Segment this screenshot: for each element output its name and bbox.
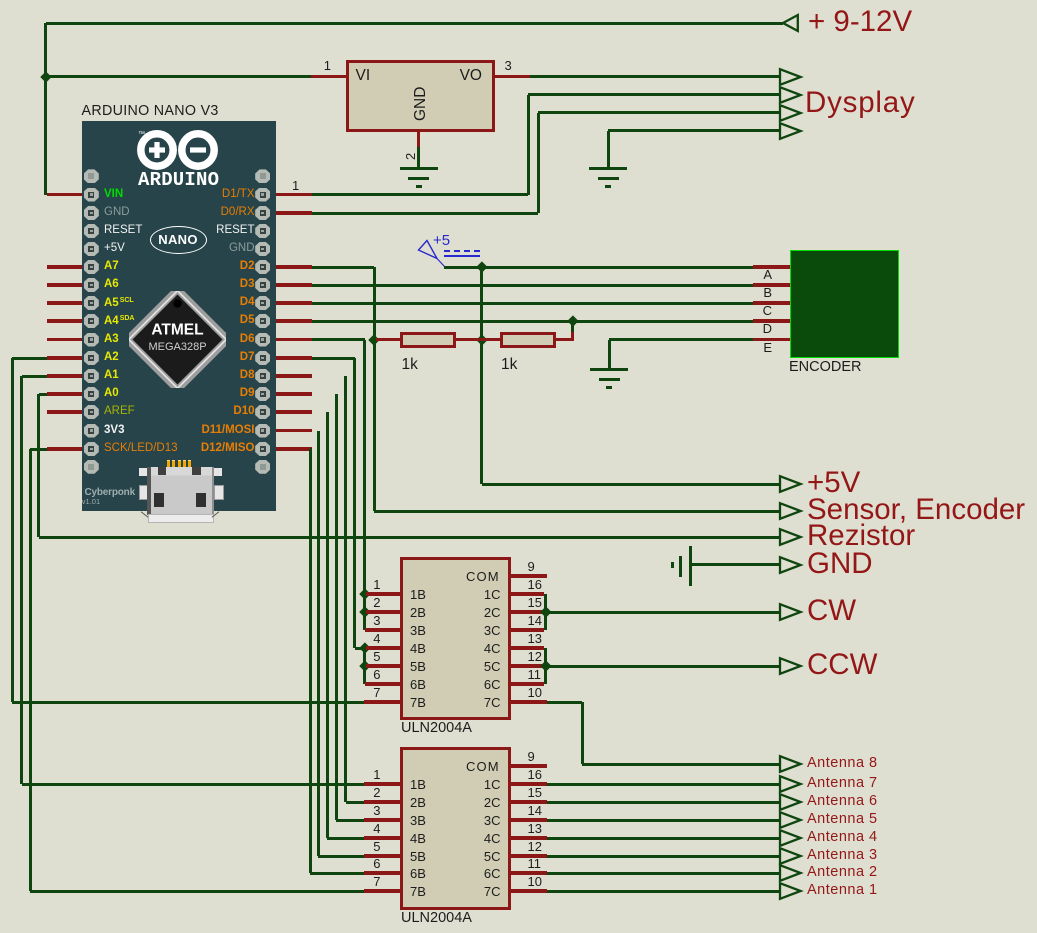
op-amp array U2 pin name 5B	[410, 850, 426, 863]
op-amp array U2 pin number 4	[365, 822, 381, 835]
pin stub A6	[47, 283, 85, 286]
pin stub encoder D	[753, 319, 791, 322]
pin stub ULN1 6B	[365, 682, 402, 685]
svg-text:™: ™	[138, 131, 145, 138]
wire A2 horizontal	[12, 357, 47, 360]
wire R2 right vertical red	[571, 332, 574, 341]
wire D10 horizontal	[326, 411, 328, 414]
wire D12/MISO vertical	[309, 449, 312, 873]
wire D11/MOSI stub	[271, 429, 312, 432]
wire D7 vertical lower	[363, 648, 366, 684]
pin stub ULN1 4B	[366, 646, 401, 649]
wire Dysplay 4 to ground	[607, 131, 610, 168]
label Antenna 4	[807, 830, 878, 845]
pin letter encoder B	[761, 286, 772, 299]
pin stub A0	[47, 392, 85, 395]
op-amp array U1 pin number 14	[528, 614, 542, 627]
op-amp array U2 pin name 6C	[455, 867, 501, 880]
pin stub ULN2 D10	[364, 836, 401, 839]
junction +5 branch	[476, 261, 487, 272]
pin stub ULN1 1B	[366, 592, 401, 595]
wire D7 horizontal	[312, 357, 355, 360]
op-amp array U2 pin name 1B	[410, 778, 426, 791]
wire A0 vertical	[37, 394, 40, 537]
op-amp array U1 pin name 4C	[455, 642, 501, 655]
label CW	[807, 596, 856, 626]
op-amp array U2 name ULN2004A	[401, 911, 472, 926]
ground regulator	[0, 0, 1037, 1]
pin stub AREF	[47, 410, 85, 413]
wire GND terminal	[691, 563, 781, 566]
terminal Antenna 3	[778, 846, 804, 866]
wire D7 stub	[271, 356, 312, 359]
wire D1/TX vertical	[527, 95, 530, 195]
wire Antenna 2 horizontal	[547, 872, 780, 875]
op-amp array U1 pin name 1B	[410, 588, 426, 601]
pin stub A1	[47, 374, 85, 377]
pin stub regulator pin 3	[493, 75, 530, 78]
pin stub ULN2 D8	[364, 800, 401, 803]
junction D6 / 1B	[359, 588, 370, 599]
encoder box	[790, 250, 899, 359]
wire CCW horizontal	[546, 665, 781, 668]
pin stub A7	[47, 265, 85, 268]
label Antenna 7	[807, 776, 878, 791]
op-amp array U2 pin name 3B	[410, 814, 426, 827]
wire Sensor Encoder horizontal	[374, 510, 780, 513]
terminal Antenna 1	[778, 881, 804, 901]
pin stub encoder C	[753, 301, 791, 304]
wire R2 left lead	[482, 338, 502, 341]
pin stub A2	[47, 356, 85, 359]
wire A2 vertical	[11, 358, 14, 702]
junction VIN / regulator VI	[40, 71, 51, 82]
wire R1 right lead	[456, 338, 482, 341]
op-amp array U1 pin number 7	[365, 686, 381, 699]
value label R1 1k	[402, 357, 418, 373]
op-amp array U2 pin name 2B	[410, 796, 426, 809]
terminal Antenna 8	[778, 754, 804, 774]
wire D6 stub	[271, 338, 312, 341]
pin stub A4	[47, 319, 85, 322]
terminal + 9-12V	[781, 13, 801, 33]
wire A1 vertical	[20, 376, 23, 784]
wire D0/RX vertical	[537, 113, 540, 214]
wire D3 stub	[271, 283, 312, 286]
op-amp array U1 pin name 6C	[455, 678, 501, 691]
op-amp array U1 name ULN2004A	[401, 721, 472, 736]
wire ULN1 7C vertical	[581, 702, 584, 764]
label Rezistor	[807, 521, 915, 551]
wire Antenna 4 horizontal	[547, 837, 780, 840]
wire to +5V terminal	[482, 483, 781, 486]
op-amp array U2 pin name 3C	[455, 814, 501, 827]
label Antenna 3	[807, 848, 878, 863]
arduino version v1.01	[82, 498, 100, 506]
terminal CW	[778, 602, 804, 622]
power probe +5 text	[433, 233, 450, 248]
wire CW horizontal	[546, 611, 781, 614]
junction D7 / 5B	[359, 660, 370, 671]
op-amp array U2 pin number 1	[365, 768, 381, 781]
wire R2 right vertical green	[571, 321, 574, 332]
wire A2 to ULN1 7B	[12, 701, 364, 704]
wire D7 link	[355, 647, 365, 650]
op-amp array U1 pin name 5B	[410, 660, 426, 673]
wire Antenna 5 horizontal	[547, 819, 780, 822]
pin stub ULN1 3C	[510, 628, 544, 631]
pin number 1 of D1/TX	[292, 179, 299, 192]
arduino pin pads	[0, 0, 1037, 1]
wire Antenna 1 horizontal	[547, 890, 780, 893]
wire D10 to ULN2	[327, 837, 364, 840]
op-amp array U2 pin number 16	[528, 768, 542, 781]
wire +5 vertical upper	[480, 267, 483, 340]
wire D11/MOSI vertical	[317, 431, 320, 857]
arduino nano board U3 body, logo, NANO oval, ATMEL MEGA328P chip	[82, 121, 277, 512]
wire SCK vertical	[29, 449, 32, 891]
label GND	[807, 549, 873, 579]
pin stub ULN1 2B	[366, 610, 401, 613]
wire ULN1 4C-6C vertical	[544, 648, 547, 684]
regulator pin name VI	[356, 68, 371, 84]
op-amp array U2 pin number 2	[365, 786, 381, 799]
wire D12/MISO to ULN2	[310, 872, 364, 875]
wire ULN1 7C horizontal	[547, 701, 582, 704]
pin stub ULN1 5B	[366, 664, 401, 667]
terminal +5V	[778, 474, 804, 494]
wire +5 to encoder A	[444, 266, 753, 269]
wire D2 vertical	[373, 267, 376, 511]
wire regulator pin 2 to ground	[417, 147, 420, 167]
wire D10 stub	[271, 410, 312, 413]
label Antenna 5	[807, 812, 878, 827]
wire D11/MOSI horizontal	[317, 429, 319, 432]
op-amp array U2 pin name 5C	[455, 850, 501, 863]
wire R2 right lead	[556, 338, 574, 341]
label ENCODER	[789, 360, 862, 375]
power probe solid line	[444, 255, 480, 257]
wire SCK to ULN2 7B	[30, 890, 364, 893]
label Antenna 2	[807, 865, 878, 880]
op-amp array U2 pin name 1C	[455, 778, 501, 791]
pin stub ULN2 D9	[364, 818, 401, 821]
ground Dysplay 4	[0, 0, 1037, 1]
wire D3 to encoder B	[312, 284, 753, 287]
op-amp array U1 pin name 3B	[410, 624, 426, 637]
pin stub A3	[47, 338, 85, 341]
op-amp array U2 pin name COM	[466, 760, 500, 773]
pin stub ULN1 2C	[510, 610, 544, 613]
wire D10 vertical	[326, 412, 329, 838]
pin letter encoder A	[761, 268, 772, 281]
op-amp array U2 pin name 7C	[455, 885, 501, 898]
pin letter encoder E	[761, 341, 772, 354]
op-amp array U1 pin number 1	[365, 578, 381, 591]
wire +5 vertical lower	[480, 340, 483, 485]
wire VIN vertical	[44, 23, 47, 195]
wire VO to Dysplay 1	[530, 75, 781, 78]
wire D4 to encoder C	[312, 302, 753, 305]
resistor R1	[400, 332, 456, 348]
junction CCW	[540, 660, 551, 671]
terminal Antenna 6	[778, 792, 804, 812]
pin stub ULN2 1C	[510, 782, 547, 785]
wire D12/MISO stub	[271, 447, 312, 450]
pin stub ULN1 7C	[510, 700, 547, 703]
label Antenna 1	[807, 883, 878, 898]
wire Antenna 3 horizontal	[547, 855, 780, 858]
wire D4 stub	[271, 301, 312, 304]
terminal GND	[778, 555, 804, 575]
op-amp array U2 pin number 10	[528, 875, 542, 888]
op-amp array U2 box	[400, 747, 511, 910]
regulator pin number 3	[505, 59, 512, 72]
pin stub ULN2 4C	[510, 836, 547, 839]
op-amp array U2 pin number 3	[365, 804, 381, 817]
pin stub ULN2 5C	[510, 854, 547, 857]
terminal Dysplay 2	[778, 85, 804, 105]
op-amp array U1 pin name 2B	[410, 606, 426, 619]
op-amp array U1 pin number 2	[365, 596, 381, 609]
op-amp array U1 pin number 15	[528, 596, 542, 609]
junction CW	[540, 606, 551, 617]
op-amp array U2 pin number 9	[528, 750, 535, 763]
pin stub VIN	[47, 193, 85, 196]
terminal Antenna 7	[778, 774, 804, 794]
wire D0/RX stub	[271, 211, 312, 214]
terminal Antenna 2	[778, 863, 804, 883]
op-amp array U1 pin number 10	[528, 686, 542, 699]
terminal Dysplay 1	[778, 67, 804, 87]
value label R2 1k	[501, 357, 517, 373]
wire Rezistor horizontal	[39, 536, 780, 539]
pin letter encoder C	[761, 304, 772, 317]
terminal Antenna 4	[778, 828, 804, 848]
op-amp array U2 pin number 11	[528, 857, 542, 870]
wire Antenna 8 horizontal	[582, 763, 780, 766]
op-amp array U2 pin number 5	[365, 840, 381, 853]
op-amp array U1 pin number 12	[528, 650, 542, 663]
wire D8 horizontal	[345, 375, 347, 378]
op-amp array U1 box	[400, 557, 511, 720]
op-amp array U2 pin number 13	[528, 822, 542, 835]
terminal Antenna 5	[778, 810, 804, 830]
label Dysplay	[805, 88, 916, 118]
op-amp array U2 pin name 6B	[410, 867, 426, 880]
wire encoder E vertical	[608, 340, 611, 369]
pin stub regulator pin 1	[311, 75, 348, 78]
wire D8 to ULN2	[346, 801, 365, 804]
label CCW	[807, 650, 877, 680]
op-amp array U1 pin name 3C	[455, 624, 501, 637]
regulator box	[346, 60, 495, 132]
wire to regulator VI	[46, 75, 312, 78]
power probe +5	[414, 236, 450, 270]
op-amp array U2 pin number 7	[365, 875, 381, 888]
op-amp array U2 pin number 15	[528, 786, 542, 799]
op-amp array U2 pin name 2C	[455, 796, 501, 809]
wire D12/MISO horizontal	[310, 448, 312, 451]
resistor R2	[500, 332, 556, 348]
op-amp array U1 pin name 6B	[410, 678, 426, 691]
wire D1/TX stub	[271, 193, 312, 196]
op-amp array U1 pin number 4	[365, 632, 381, 645]
wire D0/RX horizontal	[312, 212, 538, 215]
label Antenna 6	[807, 794, 878, 809]
terminal CCW	[778, 656, 804, 676]
arduino brand Cyberponk	[85, 488, 135, 498]
label Sensor, Encoder	[807, 495, 1025, 525]
terminal Dysplay 3	[778, 103, 804, 123]
arduino micro-usb connector	[0, 0, 1037, 1]
op-amp array U1 pin number 9	[528, 560, 535, 573]
wire D6 vertical	[363, 340, 366, 631]
pin stub ULN2 2C	[510, 800, 547, 803]
ground rotated GND terminal	[0, 0, 1037, 1]
wire D9 stub	[271, 392, 312, 395]
op-amp array U1 pin name 7B	[410, 696, 426, 709]
op-amp array U1 pin name 7C	[455, 696, 501, 709]
pin stub encoder A	[753, 265, 791, 268]
wire D8 vertical	[344, 376, 347, 802]
label ARDUINO NANO V3	[82, 104, 219, 118]
label +5V	[807, 468, 860, 498]
label Antenna 8	[807, 756, 878, 771]
terminal Sensor Encoder	[778, 501, 804, 521]
op-amp array U1 pin number 11	[528, 668, 542, 681]
wire D2 horizontal	[312, 266, 374, 269]
regulator pin name GND rotated	[413, 87, 429, 121]
pin stub ULN1 1C	[510, 592, 544, 595]
pin stub SCK/LED/D13	[47, 447, 85, 450]
wire Dysplay 4 horizontal	[608, 129, 780, 132]
pin stub encoder B	[753, 283, 791, 286]
wire A1 to ULN2 1B	[22, 783, 365, 786]
wire D11/MOSI to ULN2	[318, 855, 364, 858]
label + 9-12V	[808, 7, 912, 37]
pin stub ULN2 D12/MISO	[364, 871, 401, 874]
wire D9 vertical	[335, 394, 338, 820]
op-amp array U2 pin name 4B	[410, 832, 426, 845]
op-amp array U1 pin number 16	[528, 578, 542, 591]
regulator pin number 2 rotated	[404, 153, 417, 160]
wire D9 to ULN2	[336, 819, 364, 822]
junction D2 / R1	[368, 334, 379, 345]
ground encoder E	[0, 0, 1037, 1]
wire D2 stub	[271, 265, 312, 268]
pin stub regulator pin 2	[417, 131, 420, 148]
op-amp array U2 pin number 14	[528, 804, 542, 817]
pin stub ULN2 1B	[364, 782, 401, 785]
pin stub ULN2 7C	[510, 889, 547, 892]
arduino pin labels	[0, 0, 1037, 1]
wire SCK horizontal	[30, 448, 47, 451]
op-amp array U2 pin number 12	[528, 840, 542, 853]
pin stub ULN1 6C	[510, 682, 544, 685]
op-amp array U1 pin name 5C	[455, 660, 501, 673]
op-amp array U2 pin name 7B	[410, 885, 426, 898]
terminal Dysplay 4	[778, 121, 804, 141]
pin stub ULN2 COM	[510, 764, 547, 767]
op-amp array U1 pin name 2C	[455, 606, 501, 619]
op-amp array U1 pin number 5	[365, 650, 381, 663]
wire D7 vertical	[353, 358, 356, 648]
pin stub ULN2 D11/MOSI	[364, 854, 401, 857]
wire Dysplay 3 horizontal	[538, 111, 780, 114]
pin stub ULN1 4C	[510, 646, 544, 649]
pin stub ULN2 7B	[364, 889, 401, 892]
wire Antenna 7 horizontal	[547, 783, 780, 786]
wire Antenna 6 horizontal	[547, 801, 780, 804]
junction D7 / 4B	[359, 642, 370, 653]
pin stub ULN1 7B	[364, 700, 401, 703]
wire D1/TX horizontal	[312, 193, 528, 196]
op-amp array U1 pin name 4B	[410, 642, 426, 655]
wire D6 horizontal	[312, 338, 365, 341]
pin stub ULN1 COM	[510, 574, 547, 577]
op-amp array U2 pin name 4C	[455, 832, 501, 845]
wire D5 stub	[271, 319, 312, 322]
op-amp array U1 pin name COM	[466, 570, 500, 583]
wire +9-12V top horizontal	[46, 22, 784, 25]
regulator pin name VO	[432, 68, 482, 84]
wire D5 to encoder D	[312, 320, 753, 323]
wire Dysplay 2 horizontal	[528, 93, 780, 96]
op-amp array U1 pin number 3	[365, 614, 381, 627]
power probe dashed line	[444, 250, 480, 252]
wire R1 left lead	[376, 338, 401, 341]
pin stub ULN2 3C	[510, 818, 547, 821]
pin letter encoder D	[761, 322, 772, 335]
pin stub ULN2 6C	[510, 871, 547, 874]
wire ULN1 1C-3C vertical	[544, 594, 547, 630]
pin stub A5	[47, 301, 85, 304]
op-amp array U1 pin name 1C	[455, 588, 501, 601]
op-amp array U1 pin number 13	[528, 632, 542, 645]
junction D6 / 2B	[359, 606, 370, 617]
op-amp array U2 pin number 6	[365, 857, 381, 870]
junction D5 / R2	[567, 315, 578, 326]
wire A0 horizontal	[39, 393, 47, 396]
pin stub ULN1 3B	[365, 628, 402, 631]
pin stub encoder E	[753, 338, 791, 341]
wire D8 stub	[271, 374, 312, 377]
regulator pin number 1	[320, 59, 331, 72]
terminal Rezistor	[778, 527, 804, 547]
wire D9 horizontal	[335, 393, 337, 396]
pin stub ULN1 5C	[510, 664, 544, 667]
op-amp array U1 pin number 6	[365, 668, 381, 681]
junction +5 resistors	[476, 334, 487, 345]
wire encoder E horizontal	[609, 338, 753, 341]
wire A1 horizontal	[22, 375, 48, 378]
